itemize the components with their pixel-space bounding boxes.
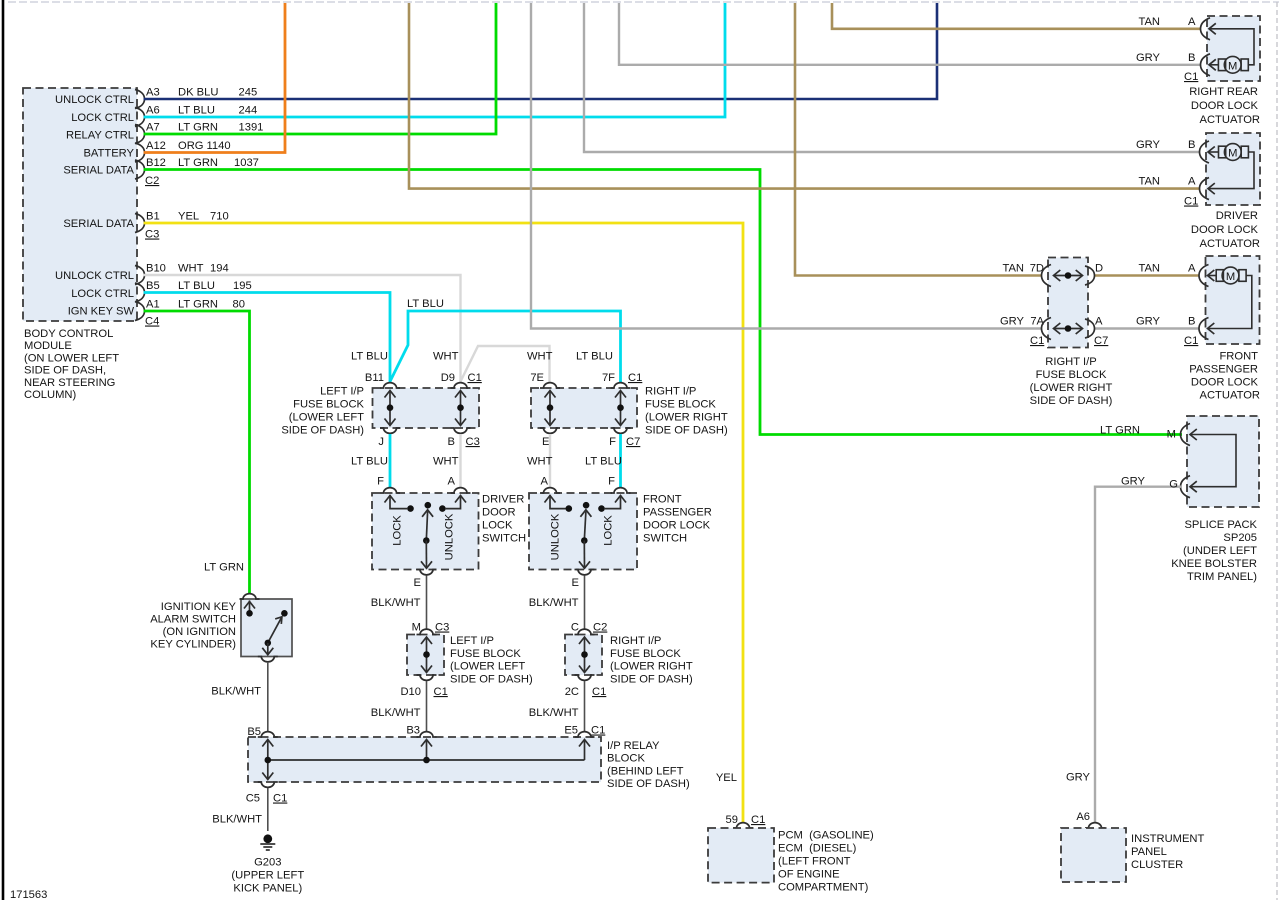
ignition switch bottom connector (258, 657, 278, 662)
label BLK/WHT (ignition column) (211, 686, 261, 698)
right rear door lock actuator box (1207, 16, 1260, 81)
svg-text:E5: E5 (564, 725, 578, 737)
svg-text:C3: C3 (435, 622, 449, 634)
svg-text:BLK/WHT: BLK/WHT (371, 707, 421, 719)
svg-text:LOCK: LOCK (482, 520, 513, 532)
svg-text:244: 244 (239, 105, 258, 117)
svg-text:F: F (608, 476, 615, 488)
left I/P fuse block top connectors B11 D9 (380, 383, 471, 388)
label pin A1 LT GRN 80 (146, 299, 245, 311)
svg-text:LT BLU: LT BLU (351, 351, 388, 363)
svg-text:1037: 1037 (234, 157, 259, 169)
svg-text:ACTUATOR: ACTUATOR (1200, 390, 1261, 402)
svg-text:G: G (1169, 479, 1178, 491)
svg-text:E: E (572, 577, 579, 589)
BCM internal pin-function labels (55, 94, 134, 318)
svg-text:B3: B3 (406, 725, 420, 737)
svg-text:RIGHT I/P: RIGHT I/P (1045, 356, 1096, 368)
left I/P fuse block (lower) caption (450, 635, 533, 685)
svg-text:COLUMN): COLUMN) (24, 389, 76, 401)
left I/P fuse element D9-B (455, 391, 466, 426)
wire BLK/WHT ignition switch to I/P relay block B5 (267, 662, 269, 732)
svg-text:B10: B10 (146, 263, 166, 275)
svg-text:E: E (414, 577, 421, 589)
driver actuator connectors B and A (1200, 141, 1215, 200)
label E (driver switch bottom) (414, 577, 421, 589)
svg-text:F: F (377, 476, 384, 488)
front passenger actuator internal wiring (1208, 276, 1252, 329)
splice pack connectors M and G (1181, 424, 1197, 498)
labels C1 C7 (right I/P fuse block) (1030, 335, 1108, 347)
label C1 (right rear actuator) (1184, 71, 1198, 83)
label GRY / B (driver actuator) (1136, 139, 1196, 151)
ignition switch contacts and lever (244, 601, 288, 655)
svg-text:KEY CYLINDER): KEY CYLINDER) (150, 639, 236, 651)
driver switch bottom connector E (417, 570, 437, 575)
svg-text:C1: C1 (1030, 335, 1044, 347)
svg-text:(LOWER RIGHT: (LOWER RIGHT (645, 412, 728, 424)
svg-text:(BEHIND LEFT: (BEHIND LEFT (607, 766, 684, 778)
splice pack internal bus (1190, 435, 1236, 487)
svg-text:LOCK: LOCK (603, 515, 615, 546)
svg-text:WHT: WHT (527, 456, 553, 468)
left I/P fuse block bottom connectors J B (380, 428, 471, 433)
wire TAN to right rear door lock actuator pin A (832, 3, 1201, 29)
svg-text:(LOWER LEFT: (LOWER LEFT (289, 412, 364, 424)
svg-text:FUSE BLOCK: FUSE BLOCK (450, 648, 521, 660)
label TAN / A (right rear actuator) (1138, 16, 1196, 28)
svg-text:LEFT I/P: LEFT I/P (450, 635, 494, 647)
svg-text:C3: C3 (466, 436, 480, 448)
pin labels B11 D9 C1 (365, 372, 482, 384)
svg-text:FUSE BLOCK: FUSE BLOCK (645, 399, 716, 411)
BCM connector label C4 (145, 316, 159, 328)
middle right I/P fuse block caption (645, 386, 728, 437)
left I/P fuse block (lower) connectors (417, 629, 437, 680)
svg-text:SIDE OF DASH): SIDE OF DASH) (610, 673, 693, 685)
wire GRY to driver door lock actuator pin B (584, 3, 1200, 152)
labels YEL / 59 / C1 (PCM) (716, 772, 765, 826)
svg-text:1391: 1391 (239, 122, 264, 134)
svg-text:C4: C4 (145, 316, 159, 328)
svg-text:C1: C1 (273, 793, 287, 805)
svg-text:SWITCH: SWITCH (482, 533, 526, 545)
label B5 (relay block) (247, 726, 261, 738)
svg-text:171563: 171563 (10, 889, 47, 900)
svg-text:LT GRN: LT GRN (178, 157, 218, 169)
svg-text:PASSENGER: PASSENGER (1189, 364, 1258, 376)
relay block internal bus (262, 740, 590, 780)
svg-text:D10: D10 (400, 686, 421, 698)
svg-text:WHT: WHT (178, 263, 204, 275)
pin labels A F (passenger switch) (541, 476, 616, 488)
svg-text:UNLOCK CTRL: UNLOCK CTRL (55, 94, 134, 106)
driver switch top connectors F A (380, 488, 471, 493)
svg-text:BLK/WHT: BLK/WHT (212, 814, 262, 826)
svg-text:A1: A1 (146, 299, 160, 311)
svg-text:RIGHT REAR: RIGHT REAR (1189, 86, 1258, 98)
labels LT GRN / M at splice pack (1100, 425, 1176, 441)
svg-text:(ON LOWER LEFT: (ON LOWER LEFT (24, 352, 119, 364)
right I/P fuse element C-2C (579, 637, 590, 673)
driver door lock actuator box (1206, 133, 1260, 205)
right rear actuator caption (1189, 86, 1260, 126)
wire BLK/WHT 2C to relay E5 (584, 681, 586, 732)
pin labels J B C3 (378, 436, 479, 448)
label pin A12 ORG 1140 (146, 140, 231, 152)
relay block bottom connector C5 (258, 782, 278, 787)
svg-text:(UPPER LEFT: (UPPER LEFT (231, 870, 304, 882)
BCM connector label C2 (145, 175, 159, 187)
ignition key alarm switch box (241, 599, 292, 657)
svg-text:ALARM SWITCH: ALARM SWITCH (150, 614, 236, 626)
svg-text:WHT: WHT (527, 351, 553, 363)
motor M3 front passenger (1216, 267, 1246, 284)
svg-text:B: B (448, 436, 455, 448)
label TAN / 7D (1002, 263, 1044, 275)
svg-text:SWITCH: SWITCH (643, 533, 687, 545)
wire LT BLU J to driver switch F (389, 434, 392, 487)
svg-text:KNEE BOLSTER: KNEE BOLSTER (1171, 558, 1257, 570)
wire LT BLU F to passenger switch F (619, 434, 622, 487)
svg-text:B: B (1188, 52, 1195, 64)
label GRY / 7A (1000, 316, 1045, 328)
right I/P fuse block caption (1030, 356, 1113, 407)
pin labels 7E 7F C1 (530, 372, 642, 384)
diagram number 171563 (10, 889, 47, 900)
svg-text:DRIVER: DRIVER (482, 494, 524, 506)
wire TAN to right I/P fuse block pin 7D (795, 3, 1042, 276)
motor M1 right rear (1218, 56, 1248, 73)
wire B10 WHT 194 (unlock ctrl to fuse blocks) (144, 275, 550, 382)
right I/P fuse block (lower right of dash) box (1048, 258, 1088, 348)
svg-text:ECM (DIESEL): ECM (DIESEL) (778, 843, 857, 855)
wire B5 LT BLU 195 (lock ctrl to fuse blocks) (144, 293, 621, 383)
label pin B5 LT BLU 195 (146, 280, 252, 292)
svg-text:TRIM PANEL): TRIM PANEL) (1187, 571, 1257, 583)
svg-text:TAN: TAN (1138, 16, 1160, 28)
left I/P fuse element M-D10 (421, 637, 432, 673)
svg-text:B11: B11 (365, 372, 384, 384)
label pin B1 YEL 710 (146, 211, 229, 223)
svg-text:DOOR: DOOR (482, 507, 516, 519)
svg-text:G203: G203 (254, 857, 281, 869)
wire A7 LT GRN 1391 (relay ctrl) (144, 3, 496, 134)
wire BLK/WHT driver switch E to left I/P fuse block M (426, 576, 428, 629)
svg-text:D9: D9 (441, 372, 455, 384)
svg-text:PASSENGER: PASSENGER (643, 507, 712, 519)
svg-text:LT BLU: LT BLU (576, 351, 613, 363)
svg-text:7F: 7F (602, 372, 615, 384)
instrument panel cluster box (1061, 828, 1126, 882)
label A / GRY / B (1095, 316, 1195, 328)
label BLK/WHT (passenger column upper) (529, 597, 579, 609)
label pin A7 LT GRN 1391 (146, 122, 263, 134)
wire WHT B to driver switch A (459, 434, 461, 487)
svg-text:FUSE BLOCK: FUSE BLOCK (610, 648, 681, 660)
labels GRY / G at splice pack (1121, 476, 1178, 491)
right I/P fuse block (upper middle) box (531, 388, 637, 428)
label pin A6 LT BLU 244 (146, 105, 257, 117)
svg-text:C7: C7 (1094, 335, 1108, 347)
splice pack caption (1171, 519, 1257, 583)
passenger switch caption (643, 494, 712, 545)
svg-text:B1: B1 (146, 211, 160, 223)
svg-text:(LEFT FRONT: (LEFT FRONT (778, 856, 851, 868)
left I/P fuse block (lower) box (407, 635, 444, 676)
svg-text:(UNDER LEFT: (UNDER LEFT (1183, 545, 1257, 557)
svg-text:PANEL: PANEL (1131, 846, 1167, 858)
svg-text:M: M (1228, 148, 1237, 160)
svg-text:SIDE OF DASH): SIDE OF DASH) (607, 778, 690, 790)
BCM pin connectors (135, 90, 145, 321)
wire B1 YEL 710 (serial data to PCM) (144, 223, 743, 822)
label UNLOCK (passenger switch) (550, 513, 562, 560)
front passenger door lock switch box (529, 493, 637, 570)
label TAN / A (driver actuator) (1138, 176, 1196, 188)
label C1 (front passenger actuator) (1184, 335, 1198, 347)
labels GRY / A6 (instrument cluster) (1066, 772, 1091, 824)
svg-text:SP205: SP205 (1223, 532, 1257, 544)
pin labels E F C7 (542, 436, 640, 448)
labels M / C3 (412, 622, 450, 634)
svg-text:OF ENGINE: OF ENGINE (778, 869, 840, 881)
wire GRY to right I/P fuse block pin 7A (531, 3, 1042, 329)
svg-text:LOCK: LOCK (392, 515, 404, 546)
relay block top connectors B5 B3 E5 (258, 732, 595, 737)
svg-text:RIGHT I/P: RIGHT I/P (645, 386, 696, 398)
front passenger door lock actuator box (1206, 256, 1260, 344)
PCM caption (778, 830, 874, 894)
ignition key alarm switch caption (150, 601, 236, 651)
svg-text:GRY: GRY (1121, 476, 1146, 488)
svg-text:GRY: GRY (1136, 139, 1161, 151)
svg-text:GRY: GRY (1000, 316, 1025, 328)
right rear actuator connectors A and B (1201, 18, 1216, 76)
svg-text:SIDE OF DASH): SIDE OF DASH) (645, 425, 728, 437)
svg-text:WHT: WHT (433, 351, 459, 363)
svg-text:LT GRN: LT GRN (1100, 425, 1140, 437)
svg-text:GRY: GRY (1066, 772, 1091, 784)
svg-text:FRONT: FRONT (643, 494, 682, 506)
fuse element 7E-E (545, 391, 556, 426)
labels E5 / C1 (564, 725, 605, 737)
svg-text:C1: C1 (628, 372, 642, 384)
svg-text:B12: B12 (146, 157, 166, 169)
svg-text:UNLOCK: UNLOCK (550, 513, 562, 560)
motor M2 driver (1219, 144, 1249, 161)
svg-text:C1: C1 (591, 725, 605, 737)
svg-text:IGN KEY SW: IGN KEY SW (68, 306, 135, 318)
svg-text:A: A (448, 476, 456, 488)
svg-text:UNLOCK: UNLOCK (444, 513, 456, 560)
svg-text:GRY: GRY (1136, 316, 1161, 328)
svg-text:FRONT: FRONT (1219, 351, 1258, 363)
svg-text:BODY CONTROL: BODY CONTROL (24, 328, 113, 340)
svg-text:RIGHT I/P: RIGHT I/P (610, 635, 661, 647)
I/P relay block caption (607, 740, 690, 790)
svg-text:WHT: WHT (433, 456, 459, 468)
svg-text:C: C (571, 622, 579, 634)
label LT GRN above ignition switch (204, 562, 244, 574)
label LOCK (passenger switch) (603, 515, 615, 546)
label D / TAN / A (1095, 263, 1196, 275)
right I/P fuse bus 7A-A with junction (1054, 323, 1083, 334)
label pin A3 DK BLU 245 (146, 87, 257, 99)
driver switch caption (482, 494, 526, 545)
PCM box (708, 828, 774, 883)
svg-text:A12: A12 (146, 140, 166, 152)
right I/P fuse block top connectors 7E 7F (540, 383, 631, 388)
I/P relay block box (248, 737, 601, 782)
labels D10 / C1 (400, 686, 447, 698)
svg-text:LT GRN: LT GRN (178, 122, 218, 134)
svg-text:BLOCK: BLOCK (607, 753, 645, 765)
svg-text:LT GRN: LT GRN (178, 299, 218, 311)
label LOCK (driver switch) (392, 515, 404, 546)
driver actuator internal wiring (1208, 152, 1254, 189)
label BLK/WHT (ground wire) (212, 814, 262, 826)
svg-text:SPLICE PACK: SPLICE PACK (1184, 519, 1257, 531)
wire A1 LT GRN 80 (ign key sw) (144, 311, 250, 594)
svg-text:SERIAL DATA: SERIAL DATA (63, 218, 134, 230)
svg-text:BATTERY: BATTERY (83, 148, 134, 160)
label E (passenger switch bottom) (572, 577, 579, 589)
wire A12 ORG 1140 (battery) (144, 3, 285, 153)
svg-text:YEL: YEL (178, 211, 199, 223)
svg-text:80: 80 (233, 299, 245, 311)
label pin B12 LT GRN 1037 (146, 157, 259, 169)
right rear actuator internal wiring (1209, 29, 1254, 65)
svg-text:A6: A6 (1076, 811, 1090, 823)
svg-text:C2: C2 (145, 175, 159, 187)
svg-text:J: J (378, 436, 384, 448)
svg-text:SIDE OF DASH): SIDE OF DASH) (1030, 395, 1113, 407)
splice pack SP205 box (1187, 416, 1259, 507)
svg-text:DOOR LOCK: DOOR LOCK (1191, 224, 1259, 236)
svg-text:194: 194 (210, 263, 229, 275)
svg-text:TAN: TAN (1138, 176, 1160, 188)
svg-text:DOOR LOCK: DOOR LOCK (1191, 100, 1259, 112)
ignition switch top connector (240, 594, 260, 599)
wire TAN from fuse D to front passenger actuator pin A (1094, 274, 1200, 277)
passenger switch unlock contact path (545, 495, 573, 512)
labels WHT LT BLU above middle fuse block (527, 351, 613, 363)
svg-text:DK BLU: DK BLU (178, 87, 218, 99)
svg-text:BLK/WHT: BLK/WHT (371, 597, 421, 609)
svg-text:195: 195 (233, 280, 252, 292)
wire A3 DK BLU 245 (unlock ctrl) (144, 3, 937, 99)
labels 2C / C1 (565, 686, 607, 698)
fuse element 7F-F (615, 391, 626, 426)
svg-text:YEL: YEL (716, 772, 737, 784)
driver actuator caption (1191, 210, 1260, 250)
svg-text:LOCK CTRL: LOCK CTRL (71, 112, 134, 124)
svg-text:INSTRUMENT: INSTRUMENT (1131, 833, 1205, 845)
BCM location caption (24, 328, 119, 401)
svg-text:710: 710 (210, 211, 229, 223)
svg-text:ORG: ORG (178, 140, 203, 152)
svg-text:A: A (1188, 176, 1196, 188)
svg-text:TAN: TAN (1138, 263, 1160, 275)
svg-text:NEAR STEERING: NEAR STEERING (24, 377, 115, 389)
svg-text:C1: C1 (1184, 335, 1198, 347)
svg-text:C1: C1 (1184, 71, 1198, 83)
passenger switch bottom connector E (575, 570, 595, 575)
svg-text:F: F (609, 436, 616, 448)
driver switch common contact and lever (421, 502, 433, 568)
svg-text:1140: 1140 (207, 140, 231, 152)
BCM connector label C3 (145, 229, 159, 241)
svg-text:7E: 7E (530, 372, 544, 384)
wire BLK/WHT C5 to ground G203 (267, 788, 269, 831)
svg-text:DRIVER: DRIVER (1216, 210, 1258, 222)
svg-text:UNLOCK CTRL: UNLOCK CTRL (55, 270, 134, 282)
label B3 (406, 725, 420, 737)
labels LT BLU WHT above left fuse block (351, 351, 459, 363)
svg-text:M: M (412, 622, 421, 634)
svg-text:M: M (1167, 429, 1176, 441)
svg-text:A: A (1188, 16, 1196, 28)
body control module U1 box (23, 88, 137, 321)
svg-text:(ON IGNITION: (ON IGNITION (163, 626, 236, 638)
labels C / C2 (571, 622, 607, 634)
svg-text:LT BLU: LT BLU (407, 298, 444, 310)
labels WHT LT BLU above passenger switch (527, 456, 622, 468)
left I/P fuse block (upper) box (373, 388, 480, 428)
driver switch unlock contact path (439, 495, 466, 512)
svg-text:C5: C5 (246, 793, 260, 805)
svg-text:COMPARTMENT): COMPARTMENT) (778, 882, 869, 894)
label GRY / B (right rear actuator) (1136, 52, 1196, 64)
driver switch lock contact path (385, 495, 414, 512)
instrument panel cluster caption (1131, 833, 1205, 871)
svg-text:LT BLU: LT BLU (585, 456, 622, 468)
right I/P fuse block (lower) box (565, 635, 602, 676)
svg-text:LT GRN: LT GRN (204, 562, 244, 574)
svg-text:C1: C1 (751, 814, 765, 826)
label BLK/WHT (passenger column lower) (529, 707, 579, 719)
svg-text:2C: 2C (565, 686, 579, 698)
label BLK/WHT (driver column upper) (371, 597, 421, 609)
svg-text:DOOR LOCK: DOOR LOCK (643, 520, 711, 532)
svg-text:B: B (1188, 139, 1195, 151)
svg-text:RELAY CTRL: RELAY CTRL (66, 130, 134, 142)
svg-text:B5: B5 (146, 280, 160, 292)
passenger switch top connectors A F (540, 488, 631, 493)
labels LT BLU WHT above driver switch (351, 456, 459, 468)
svg-text:C7: C7 (626, 436, 640, 448)
svg-text:SIDE OF DASH,: SIDE OF DASH, (24, 365, 106, 377)
svg-text:(LOWER RIGHT: (LOWER RIGHT (1030, 382, 1113, 394)
wire GRY from fuse A to front passenger actuator pin B (1094, 327, 1200, 329)
svg-text:A7: A7 (146, 122, 160, 134)
svg-text:59: 59 (726, 814, 738, 826)
svg-text:TAN: TAN (1002, 263, 1024, 275)
svg-text:(LOWER LEFT: (LOWER LEFT (450, 661, 525, 673)
svg-text:IGNITION KEY: IGNITION KEY (161, 601, 237, 613)
svg-text:E: E (542, 436, 549, 448)
svg-text:M: M (1226, 271, 1235, 283)
passenger switch common contact and lever (579, 502, 591, 568)
svg-text:A: A (1095, 316, 1103, 328)
right I/P fuse block (lower) connectors (575, 629, 595, 680)
wire BLK/WHT passenger switch E to right I/P fuse block C (584, 576, 586, 629)
wire A6 LT BLU 244 (lock ctrl) (144, 3, 725, 117)
svg-text:A3: A3 (146, 87, 160, 99)
svg-text:(LOWER RIGHT: (LOWER RIGHT (610, 661, 693, 673)
svg-text:MODULE: MODULE (24, 340, 72, 352)
